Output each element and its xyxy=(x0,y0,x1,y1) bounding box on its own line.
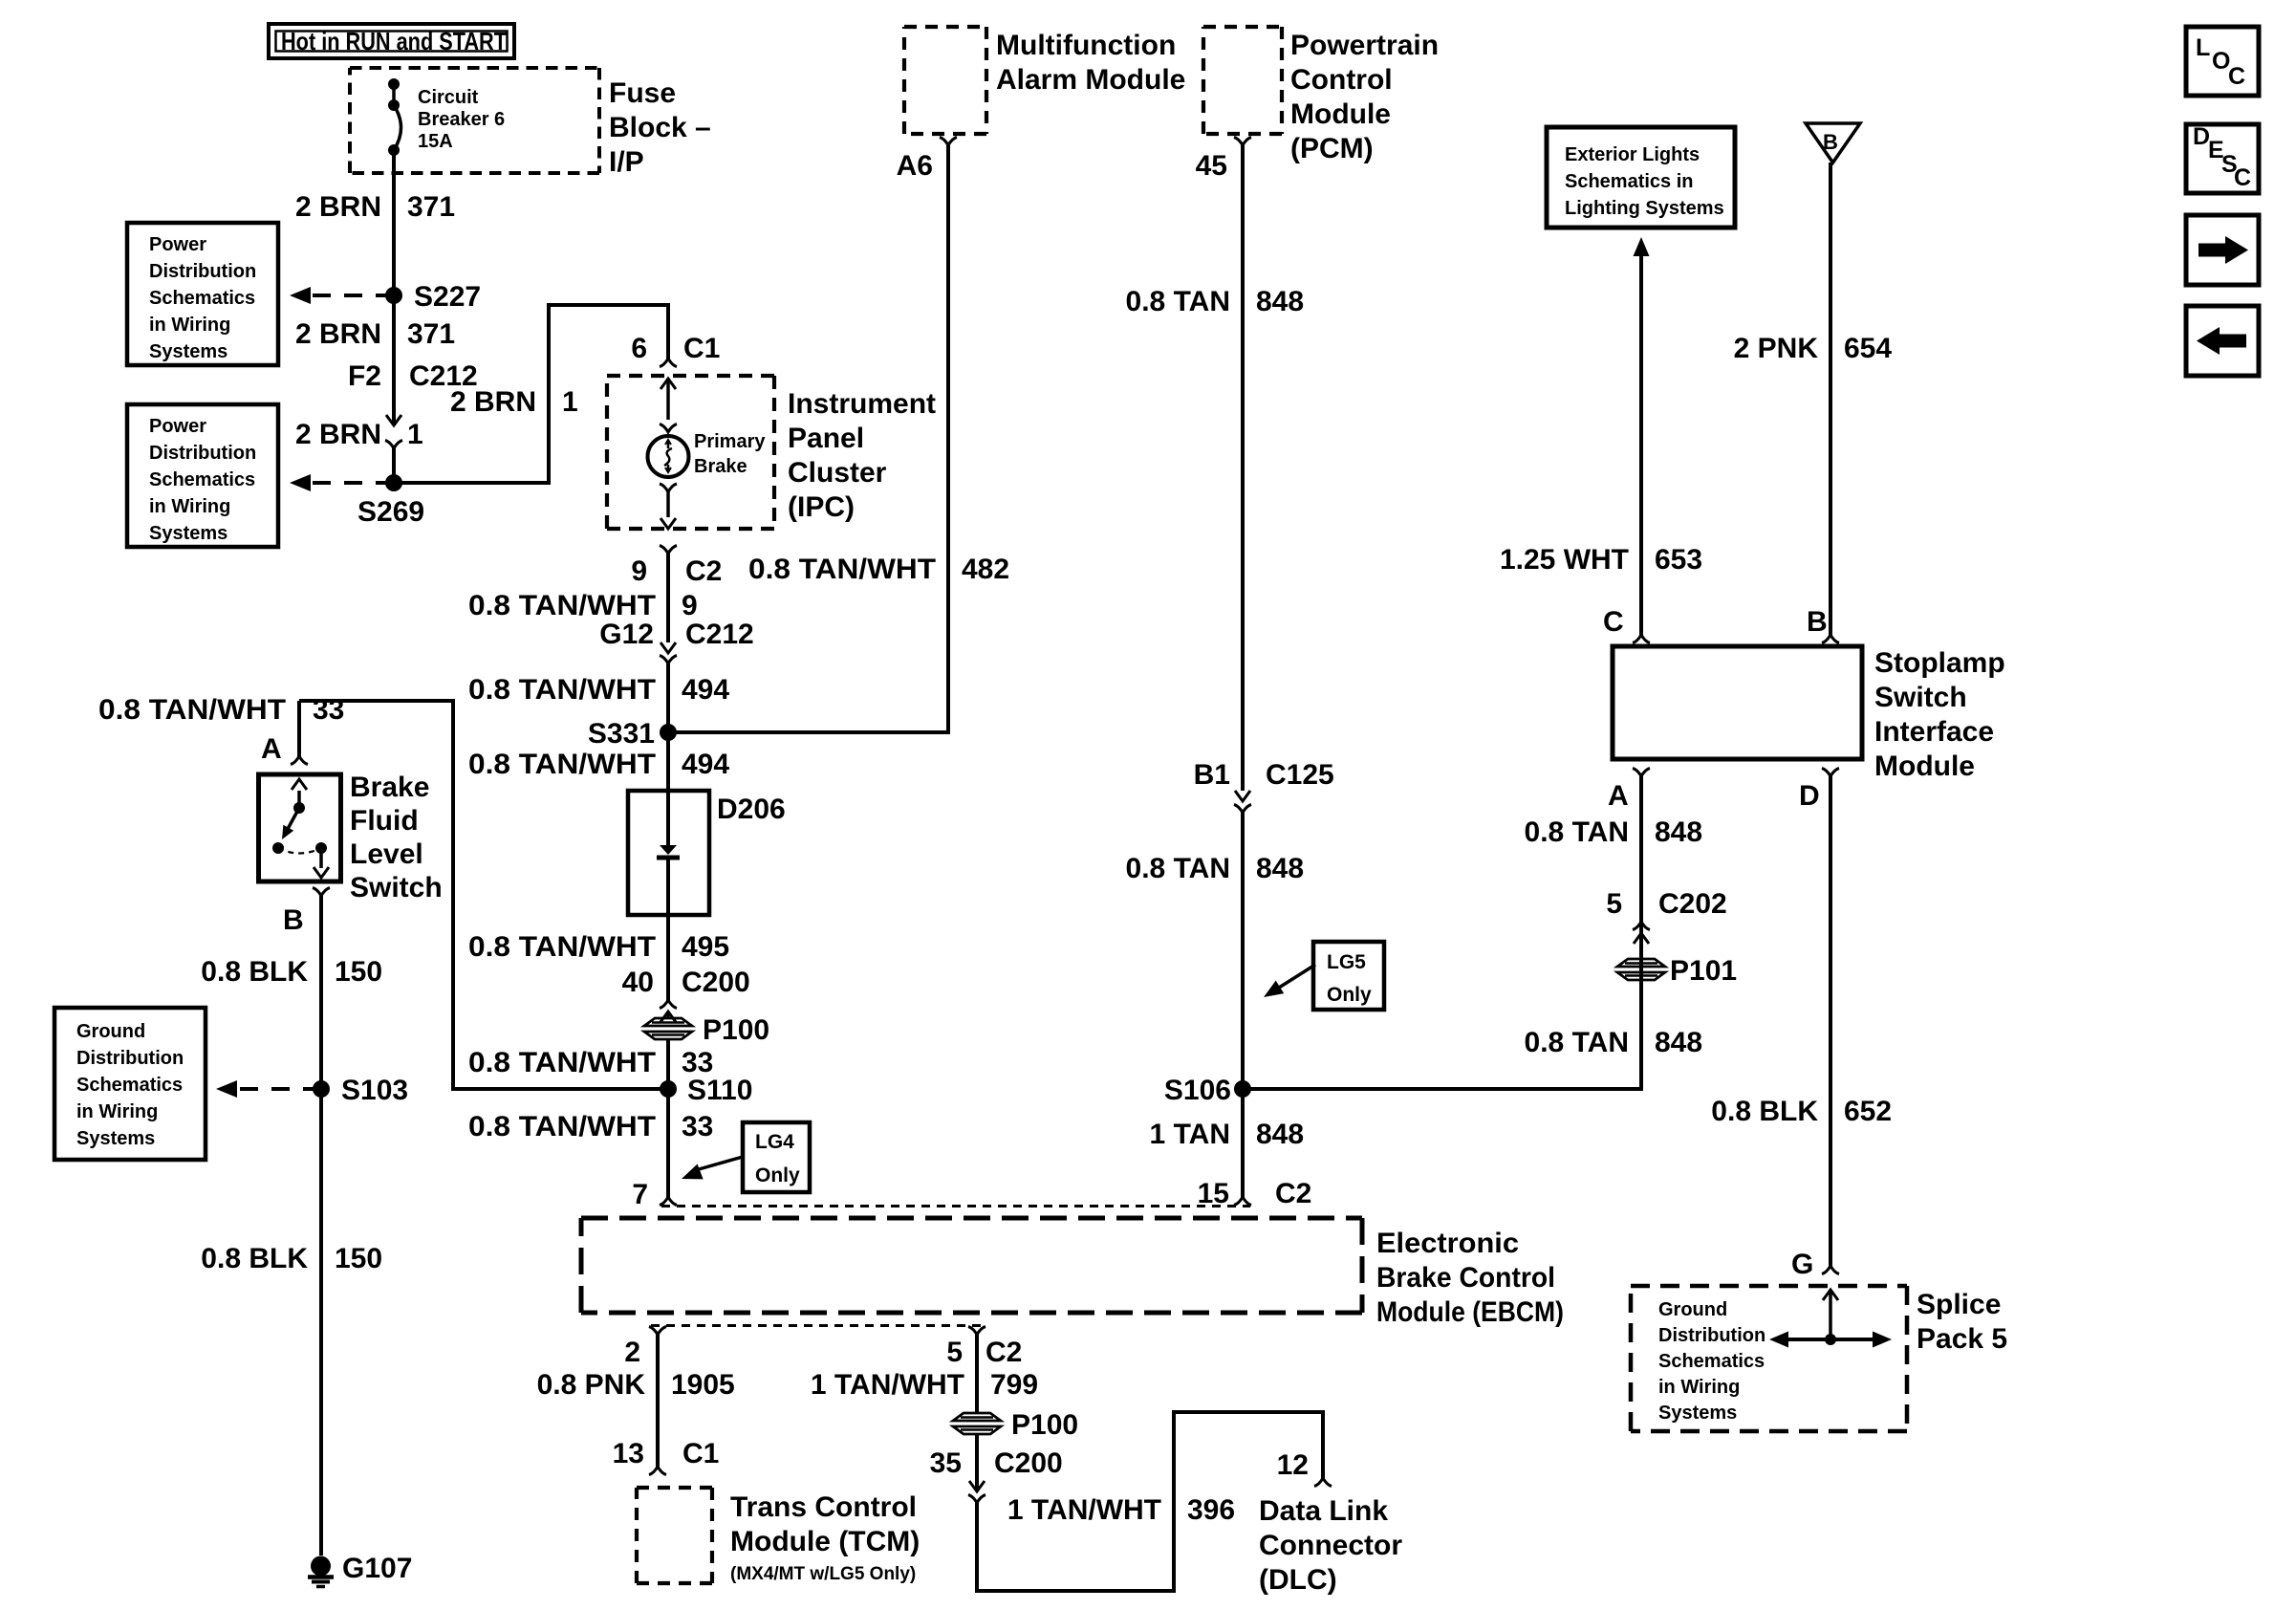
connector cup at splice pack terminal G xyxy=(1822,1266,1839,1274)
svg-text:L: L xyxy=(2196,34,2210,61)
svg-text:Pack 5: Pack 5 xyxy=(1917,1323,2007,1355)
svg-text:S331: S331 xyxy=(588,718,655,750)
svg-text:B1: B1 xyxy=(1194,759,1230,791)
svg-text:848: 848 xyxy=(1256,1119,1304,1150)
svg-text:(PCM): (PCM) xyxy=(1290,133,1374,164)
wire: S331 to diode D206 (0.8 TAN/WHT 494) xyxy=(666,732,670,791)
wire: EBCM pin 5 to P100 (1 TAN/WHT 799) xyxy=(975,1335,979,1413)
splice S110 xyxy=(660,1080,677,1098)
svg-text:Module (TCM): Module (TCM) xyxy=(730,1526,920,1557)
svg-text:40: 40 xyxy=(622,967,654,998)
svg-text:C: C xyxy=(2234,164,2251,191)
svg-text:35: 35 xyxy=(930,1447,962,1479)
dashed reference arrow from S269 to Power Distribution box xyxy=(308,481,394,485)
svg-text:482: 482 xyxy=(962,554,1009,585)
svg-text:0.8 TAN/WHT: 0.8 TAN/WHT xyxy=(98,694,286,726)
svg-text:S106: S106 xyxy=(1164,1075,1231,1106)
svg-text:12: 12 xyxy=(1277,1449,1309,1481)
svg-text:D206: D206 xyxy=(717,794,786,825)
svg-text:0.8 BLK: 0.8 BLK xyxy=(201,956,308,988)
EBCM pin 5 connector cup xyxy=(968,1327,986,1336)
splice S269 xyxy=(385,474,402,491)
svg-text:P100: P100 xyxy=(703,1014,769,1046)
wire: S106 to EBCM pin 15 C2 (1 TAN 848) xyxy=(1241,1089,1245,1197)
reference box: Power Distribution Schematics in Wiring Systems (lower) xyxy=(127,404,278,547)
svg-text:Powertrain: Powertrain xyxy=(1290,30,1439,61)
svg-text:Schematics: Schematics xyxy=(149,288,255,309)
svg-text:0.8 TAN/WHT: 0.8 TAN/WHT xyxy=(468,674,656,706)
wire: P100 to connector C200 xyxy=(975,1434,979,1491)
connector cup at switch terminal B xyxy=(313,888,330,897)
svg-text:Multifunction: Multifunction xyxy=(996,30,1176,61)
svg-text:0.8 TAN: 0.8 TAN xyxy=(1525,1027,1629,1058)
svg-text:Module (EBCM): Module (EBCM) xyxy=(1376,1296,1564,1328)
svg-text:6: 6 xyxy=(631,333,647,364)
reference box: Exterior Lights Schematics in Lighting Systems xyxy=(1547,127,1735,228)
indicator lamp: Primary Brake xyxy=(648,436,689,477)
wire: S110 to EBCM pin 7 (0.8 TAN/WHT 33) xyxy=(666,1089,670,1197)
svg-text:Data Link: Data Link xyxy=(1259,1495,1388,1527)
wire: C200 to P100 xyxy=(666,1012,670,1018)
svg-text:LG4: LG4 xyxy=(755,1131,794,1153)
svg-text:0.8 PNK: 0.8 PNK xyxy=(537,1369,646,1401)
wire: stoplamp module C to Exterior Lights reference (1.25 WHT 653) xyxy=(1639,256,1643,635)
svg-text:Switch: Switch xyxy=(1874,682,1967,713)
splice S103 xyxy=(313,1080,330,1098)
off-page triangle connector B xyxy=(1806,123,1860,163)
fuse block dashed box xyxy=(350,68,599,173)
dashed reference arrow from S103 to Ground Distribution box xyxy=(237,1087,321,1091)
svg-text:0.8 TAN/WHT: 0.8 TAN/WHT xyxy=(468,1111,656,1142)
Splice Pack 5 dashed box xyxy=(1631,1286,1907,1431)
svg-text:13: 13 xyxy=(613,1438,644,1469)
svg-text:G12: G12 xyxy=(599,619,654,650)
svg-text:2: 2 xyxy=(624,1337,640,1368)
svg-text:0.8 TAN: 0.8 TAN xyxy=(1126,286,1230,317)
svg-text:Block –: Block – xyxy=(609,112,711,143)
svg-text:5: 5 xyxy=(1606,888,1622,920)
arrow from LG5 Only box to wire xyxy=(1279,965,1315,988)
svg-text:371: 371 xyxy=(407,191,455,223)
connector cup at stoplamp module terminal A xyxy=(1633,769,1650,777)
grommet P100 xyxy=(644,1018,692,1026)
connector C202 pin 5 (inline connector, facing up) xyxy=(1633,922,1650,930)
svg-text:Distribution: Distribution xyxy=(149,261,256,282)
connector cup at EBCM pin 7 xyxy=(660,1197,677,1206)
connector cup at PCM pin 45 xyxy=(1234,138,1251,146)
svg-text:S103: S103 xyxy=(341,1075,408,1106)
svg-text:396: 396 xyxy=(1187,1494,1235,1526)
wire: C125 to S106 (0.8 TAN 848) xyxy=(1241,813,1245,1089)
wire: C212 to S269 (2 BRN 1) xyxy=(392,448,396,483)
IPC internal pin arrow (C2 side) xyxy=(666,492,670,518)
svg-text:C212: C212 xyxy=(685,619,754,650)
svg-text:0.8 TAN/WHT: 0.8 TAN/WHT xyxy=(468,1047,656,1078)
svg-text:33: 33 xyxy=(682,1111,713,1142)
svg-text:494: 494 xyxy=(682,674,729,706)
grommet P101 xyxy=(1617,959,1665,967)
svg-text:2 BRN: 2 BRN xyxy=(295,318,381,350)
svg-text:Only: Only xyxy=(1327,984,1372,1006)
svg-text:150: 150 xyxy=(335,1243,382,1274)
svg-text:S110: S110 xyxy=(687,1075,752,1106)
connector cup at IPC C1 xyxy=(660,359,677,367)
svg-text:C200: C200 xyxy=(994,1447,1063,1479)
reference box: Power Distribution Schematics in Wiring Systems (upper) xyxy=(127,223,278,365)
wire: C212 to S331 (0.8 TAN/WHT 494) xyxy=(666,664,670,732)
svg-text:C2: C2 xyxy=(685,555,722,587)
svg-text:D: D xyxy=(1799,780,1820,812)
svg-text:Fuse: Fuse xyxy=(609,77,676,109)
svg-text:(MX4/MT w/LG5 Only): (MX4/MT w/LG5 Only) xyxy=(730,1564,916,1584)
switch dashed travel arc xyxy=(278,848,321,854)
arrow from LG4 Only box to wire xyxy=(699,1157,743,1169)
Brake Fluid Level Switch box xyxy=(259,774,341,881)
svg-text:B: B xyxy=(283,904,304,936)
switch blade with arrowhead xyxy=(288,808,299,829)
svg-text:2 BRN: 2 BRN xyxy=(450,386,536,418)
svg-text:Brake Control: Brake Control xyxy=(1376,1262,1555,1294)
svg-text:Electronic: Electronic xyxy=(1376,1228,1519,1259)
wire: C200 to Data Link Connector pin 12 (1 TAN/WHT 396) xyxy=(977,1412,1323,1591)
svg-text:Hot in RUN and START: Hot in RUN and START xyxy=(281,27,507,55)
label: Hot in RUN and START box xyxy=(269,24,514,58)
IPC internal cup above lamp xyxy=(660,424,677,433)
splice pack internal arrows xyxy=(1829,1293,1832,1339)
svg-text:Systems: Systems xyxy=(149,523,227,544)
svg-text:1: 1 xyxy=(407,419,423,450)
svg-text:Switch: Switch xyxy=(350,872,443,903)
connector cup at TCM C1 xyxy=(649,1467,666,1475)
svg-text:Ground: Ground xyxy=(1658,1299,1727,1320)
connector cup at stoplamp module terminal C xyxy=(1633,635,1650,643)
svg-text:Systems: Systems xyxy=(149,341,227,362)
circuit breaker 6 15A symbol xyxy=(388,78,400,90)
svg-text:495: 495 xyxy=(682,931,729,963)
svg-text:Brake: Brake xyxy=(694,456,747,477)
svg-text:652: 652 xyxy=(1844,1096,1892,1127)
svg-text:Cluster: Cluster xyxy=(788,457,887,489)
IPC internal cup below lamp xyxy=(660,484,677,492)
svg-text:Lighting Systems: Lighting Systems xyxy=(1565,198,1724,219)
svg-text:in Wiring: in Wiring xyxy=(149,496,230,517)
EBCM pin 2 connector cup xyxy=(649,1327,666,1336)
svg-text:Schematics: Schematics xyxy=(76,1075,183,1096)
svg-text:S227: S227 xyxy=(414,281,481,313)
svg-text:45: 45 xyxy=(1196,150,1227,182)
svg-text:0.8 TAN: 0.8 TAN xyxy=(1126,853,1230,884)
svg-text:I/P: I/P xyxy=(609,146,644,178)
Instrument Panel Cluster dashed box xyxy=(607,376,774,529)
EBCM connector face line (bottom) xyxy=(651,1324,986,1327)
connector cup at stoplamp module terminal D xyxy=(1822,769,1839,777)
svg-text:Distribution: Distribution xyxy=(149,443,256,464)
Multifunction Alarm Module dashed box xyxy=(904,27,986,134)
svg-text:C200: C200 xyxy=(682,967,750,998)
svg-text:494: 494 xyxy=(682,749,729,780)
svg-text:1 TAN/WHT: 1 TAN/WHT xyxy=(811,1369,964,1401)
svg-text:371: 371 xyxy=(407,318,455,350)
svg-text:848: 848 xyxy=(1256,853,1304,884)
DESC sidebar box xyxy=(2186,124,2259,193)
connector cup at DLC pin 12 xyxy=(1314,1478,1332,1487)
svg-text:1.25 WHT: 1.25 WHT xyxy=(1500,544,1629,576)
ground G107 symbol xyxy=(311,1556,331,1577)
svg-text:(DLC): (DLC) xyxy=(1259,1564,1337,1596)
svg-text:7: 7 xyxy=(632,1179,648,1210)
wire: S331 to Multifunction Alarm Module pin A6 (0.8 TAN/WHT 482) xyxy=(668,145,948,732)
wire: stoplamp module D to splice pack G (0.8 BLK 652) xyxy=(1829,776,1832,1266)
svg-text:Control: Control xyxy=(1290,64,1393,96)
svg-text:F2: F2 xyxy=(348,360,381,392)
svg-text:Systems: Systems xyxy=(76,1128,155,1149)
svg-text:0.8 TAN/WHT: 0.8 TAN/WHT xyxy=(748,554,936,585)
svg-text:Module: Module xyxy=(1874,751,1975,782)
svg-text:Trans Control: Trans Control xyxy=(730,1491,917,1523)
svg-text:Breaker 6: Breaker 6 xyxy=(418,109,505,130)
splice S331 xyxy=(660,724,677,741)
svg-text:Primary: Primary xyxy=(694,431,766,452)
back arrow sidebar box xyxy=(2186,306,2259,376)
svg-text:Power: Power xyxy=(149,416,206,437)
svg-text:C: C xyxy=(1603,606,1624,638)
svg-text:Distribution: Distribution xyxy=(1658,1325,1765,1346)
svg-text:G: G xyxy=(1791,1249,1813,1280)
svg-text:848: 848 xyxy=(1256,286,1304,317)
svg-text:1 TAN: 1 TAN xyxy=(1150,1119,1230,1150)
svg-text:S269: S269 xyxy=(357,496,424,528)
svg-text:G107: G107 xyxy=(342,1553,412,1584)
svg-text:150: 150 xyxy=(335,956,382,988)
svg-text:9: 9 xyxy=(682,590,698,621)
LG5 Only callout box xyxy=(1313,942,1384,1010)
svg-text:1 TAN/WHT: 1 TAN/WHT xyxy=(1007,1494,1161,1526)
svg-text:C202: C202 xyxy=(1658,888,1727,920)
svg-text:Fluid: Fluid xyxy=(350,805,419,837)
connector cup at IPC C2 xyxy=(660,546,677,555)
svg-text:1: 1 xyxy=(562,386,578,418)
svg-text:2 BRN: 2 BRN xyxy=(295,191,381,223)
svg-text:C1: C1 xyxy=(683,333,720,364)
svg-text:A6: A6 xyxy=(897,150,933,182)
wire: P100 to S110 (0.8 TAN/WHT 33) xyxy=(666,1039,670,1089)
Electronic Brake Control Module dashed box xyxy=(581,1218,1362,1313)
connector cup at EBCM pin 15 xyxy=(1234,1197,1251,1206)
svg-text:Interface: Interface xyxy=(1874,716,1994,748)
switch contact dots xyxy=(272,842,284,854)
svg-text:653: 653 xyxy=(1655,544,1702,576)
svg-text:Level: Level xyxy=(350,838,423,870)
svg-text:0.8 TAN/WHT: 0.8 TAN/WHT xyxy=(468,931,656,963)
svg-text:799: 799 xyxy=(990,1369,1038,1401)
svg-text:C125: C125 xyxy=(1266,759,1334,791)
svg-text:0.8 TAN/WHT: 0.8 TAN/WHT xyxy=(468,749,656,780)
svg-text:0.8 BLK: 0.8 BLK xyxy=(1711,1096,1818,1127)
svg-text:33: 33 xyxy=(313,694,344,726)
LOC sidebar box xyxy=(2186,27,2259,96)
wire: D206 to connector C200 (0.8 TAN/WHT 495) xyxy=(666,915,670,1000)
splice S106 xyxy=(1234,1080,1251,1098)
wire: switch B to S103 (0.8 BLK 150) xyxy=(319,896,323,1089)
IPC internal pin arrow (C1 side) xyxy=(666,379,670,420)
svg-text:A: A xyxy=(261,733,282,765)
svg-text:LG5: LG5 xyxy=(1327,951,1366,973)
svg-text:0.8 TAN: 0.8 TAN xyxy=(1525,816,1629,848)
Powertrain Control Module dashed box xyxy=(1203,27,1282,134)
svg-text:Connector: Connector xyxy=(1259,1530,1402,1561)
svg-text:in Wiring: in Wiring xyxy=(149,315,230,336)
svg-text:Distribution: Distribution xyxy=(76,1048,184,1069)
wire stub into switch terminal A xyxy=(297,701,301,756)
svg-text:5: 5 xyxy=(946,1337,963,1368)
splice S227 xyxy=(385,287,402,304)
svg-text:2 PNK: 2 PNK xyxy=(1734,333,1819,364)
svg-text:9: 9 xyxy=(631,555,647,587)
svg-text:Instrument: Instrument xyxy=(788,388,936,420)
svg-text:Exterior Lights: Exterior Lights xyxy=(1565,144,1700,165)
svg-text:B: B xyxy=(1807,606,1828,638)
svg-text:A: A xyxy=(1608,780,1629,812)
svg-text:B: B xyxy=(1823,130,1838,154)
Trans Control Module dashed box xyxy=(637,1488,712,1583)
reference box: Ground Distribution Schematics in Wiring Systems xyxy=(54,1008,206,1160)
svg-text:C: C xyxy=(2228,63,2245,90)
switch internal: pin arrow to B xyxy=(319,848,323,868)
svg-text:in Wiring: in Wiring xyxy=(1658,1377,1740,1398)
wire: IPC C2 to connector C212 (0.8 TAN/WHT 9) xyxy=(666,554,670,642)
connector cup at switch terminal A xyxy=(291,756,308,765)
wire: S106 to stoplamp module terminal A (0.8 TAN 848) xyxy=(1243,776,1641,1089)
svg-text:Systems: Systems xyxy=(1658,1403,1737,1424)
wire: brake fluid level switch A to S110 (0.8 TAN/WHT 33) xyxy=(299,701,668,1089)
svg-text:Stoplamp: Stoplamp xyxy=(1874,647,2005,679)
svg-text:0.8 TAN/WHT: 0.8 TAN/WHT xyxy=(468,590,656,621)
svg-text:P100: P100 xyxy=(1011,1409,1078,1441)
svg-text:Schematics in: Schematics in xyxy=(1565,171,1694,192)
svg-text:in Wiring: in Wiring xyxy=(76,1101,158,1122)
connector cup at stoplamp module terminal B xyxy=(1822,635,1839,643)
svg-text:1905: 1905 xyxy=(671,1369,735,1401)
svg-text:Ground: Ground xyxy=(76,1021,145,1042)
wire: S103 to ground G107 (0.8 BLK 150) xyxy=(319,1089,323,1556)
svg-text:Alarm Module: Alarm Module xyxy=(996,64,1185,96)
svg-text:Only: Only xyxy=(755,1164,800,1186)
connector cup at A6 xyxy=(940,138,957,146)
wire: circuit breaker to S227 (2 BRN 371) xyxy=(392,150,396,295)
svg-text:15A: 15A xyxy=(418,131,453,152)
LG4 Only callout box xyxy=(743,1122,810,1192)
svg-text:C2: C2 xyxy=(1275,1178,1311,1209)
Stoplamp Switch Interface Module box xyxy=(1613,646,1862,759)
forward arrow sidebar box xyxy=(2186,215,2259,285)
grommet P100 (lower) xyxy=(953,1413,1001,1421)
dashed reference arrow from S227 to Power Distribution box xyxy=(308,294,394,297)
wire: stoplamp module B to off-page connector B (2 PNK 654) xyxy=(1829,163,1832,635)
svg-text:0.8 BLK: 0.8 BLK xyxy=(201,1243,308,1274)
wire: S269 to IPC connector C1 pin 6 (2 BRN 1) xyxy=(394,305,668,483)
svg-text:Schematics: Schematics xyxy=(1658,1351,1765,1372)
wire: PCM 45 to connector C125 (0.8 TAN 848) xyxy=(1241,145,1245,791)
svg-text:Power: Power xyxy=(149,234,206,255)
svg-text:Brake: Brake xyxy=(350,772,429,803)
svg-text:C1: C1 xyxy=(682,1438,719,1469)
svg-text:(IPC): (IPC) xyxy=(788,491,855,523)
svg-text:Panel: Panel xyxy=(788,423,864,454)
svg-text:848: 848 xyxy=(1655,816,1702,848)
EBCM connector face line (top) xyxy=(661,1205,1250,1207)
wire: EBCM pin 2 to TCM (0.8 PNK 1905) xyxy=(656,1335,660,1467)
svg-text:848: 848 xyxy=(1655,1027,1702,1058)
wire: S227 to connector C212 (2 BRN 371) xyxy=(392,295,396,425)
diode D206 xyxy=(628,791,709,915)
svg-text:2 BRN: 2 BRN xyxy=(295,419,381,450)
svg-text:Schematics: Schematics xyxy=(149,469,255,490)
svg-text:Module: Module xyxy=(1290,98,1391,130)
svg-text:C2: C2 xyxy=(986,1337,1022,1368)
svg-text:654: 654 xyxy=(1844,333,1892,364)
svg-text:Circuit: Circuit xyxy=(418,87,479,108)
svg-text:P101: P101 xyxy=(1670,955,1737,987)
switch internal: pin arrow from A xyxy=(297,791,301,808)
svg-text:Splice: Splice xyxy=(1917,1289,2001,1320)
